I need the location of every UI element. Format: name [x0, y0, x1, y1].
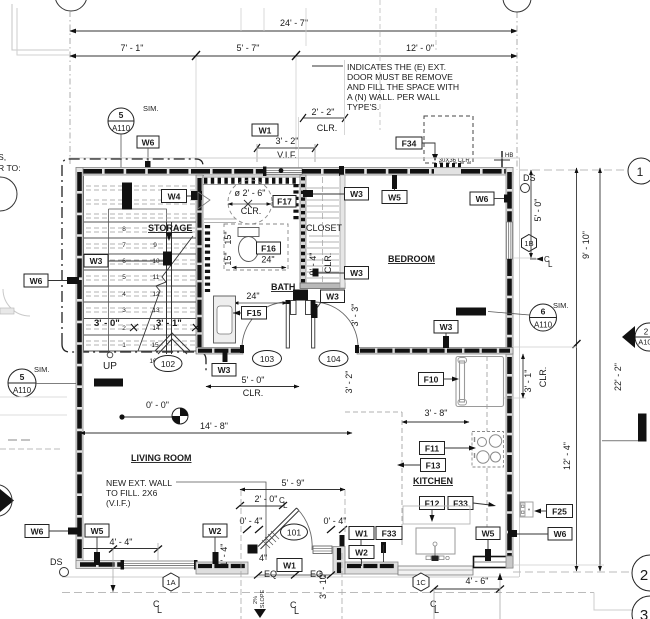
tread numbers right run — [149, 242, 160, 365]
svg-text:5: 5 — [20, 372, 25, 382]
svg-text:2: 2 — [122, 325, 126, 332]
dim line B 9'-10" / 12'-4" — [576, 168, 578, 571]
svg-text:2' - 0": 2' - 0" — [255, 494, 278, 504]
note new ext wall — [106, 478, 266, 560]
room tag 101 — [281, 524, 308, 540]
W3 tag right of closet mid — [313, 267, 369, 280]
svg-text:103: 103 — [260, 354, 274, 364]
tag F11 — [420, 442, 477, 455]
tag F10 — [419, 373, 460, 386]
svg-text:2' - 2": 2' - 2" — [312, 107, 335, 117]
svg-text:F12: F12 — [425, 499, 440, 509]
extension line x241 — [240, 8, 242, 31]
svg-text:W6: W6 — [30, 276, 43, 286]
svg-text:ø 2' - 6": ø 2' - 6" — [235, 188, 266, 198]
storage enclosure outline — [108, 209, 110, 352]
tags W1 F33 right of entry — [349, 527, 402, 563]
bedroom bottom wall — [357, 348, 513, 355]
svg-text:5' - 0": 5' - 0" — [533, 199, 543, 222]
callout 5/A110 SIM — [108, 104, 158, 168]
dim 3'-1" CLR kitchen right — [522, 354, 524, 398]
svg-text:7' - 1": 7' - 1" — [121, 43, 144, 53]
tag W6 bedroom — [470, 192, 510, 205]
chimney black rect — [122, 183, 132, 210]
upper cabinet dashed — [486, 356, 488, 527]
svg-text:W1: W1 — [355, 529, 368, 539]
svg-text:5' - 7": 5' - 7" — [237, 43, 260, 53]
eave line top — [69, 157, 520, 159]
right wall poche lower — [507, 259, 512, 564]
junction tick top wall x340 — [339, 166, 344, 176]
extension dashed x345 — [344, 490, 346, 535]
bath top wall checkered — [203, 177, 300, 185]
svg-text:LIVING ROOM: LIVING ROOM — [131, 453, 192, 463]
extension dashed x342 lower — [341, 553, 343, 619]
bath left wall checkered — [205, 225, 210, 292]
svg-text:22' - 2": 22' - 2" — [613, 363, 623, 391]
svg-text:W2: W2 — [355, 548, 368, 558]
svg-text:W4: W4 — [168, 192, 181, 202]
hose bib HB — [494, 151, 513, 169]
tag W5 bedroom top — [382, 175, 407, 204]
eave line right — [519, 158, 521, 577]
grid dashed to bubble 2 — [513, 571, 631, 573]
svg-text:W1: W1 — [259, 126, 272, 136]
room tag 102 — [154, 356, 182, 372]
bath bottom wall left of door 103 — [196, 348, 243, 355]
svg-text:(V.I.F.): (V.I.F.) — [106, 498, 131, 508]
door 103 leaf — [240, 300, 290, 353]
svg-text:3' - 8": 3' - 8" — [425, 408, 448, 418]
svg-text:S,: S, — [0, 152, 6, 162]
svg-text:BEDROOM: BEDROOM — [388, 254, 435, 264]
left exterior wall band — [76, 168, 83, 569]
svg-text:TO FILL. 2X6: TO FILL. 2X6 — [106, 488, 158, 498]
kitchen window bottom — [474, 557, 508, 568]
tag F13 — [397, 459, 446, 472]
svg-text:W3: W3 — [326, 292, 339, 302]
svg-text:BATH: BATH — [271, 282, 295, 292]
dimension 24'-7" — [70, 30, 517, 32]
clearance arrows — [228, 203, 271, 205]
svg-text:CLOSET: CLOSET — [306, 223, 343, 233]
svg-text:SIM.: SIM. — [143, 104, 158, 113]
left wall poche — [77, 172, 82, 564]
svg-text:A110: A110 — [112, 124, 131, 133]
W3 tag left wall — [84, 252, 172, 268]
svg-text:4' - 4": 4' - 4" — [110, 537, 133, 547]
svg-text:3' - 1": 3' - 1" — [156, 318, 182, 329]
tag F16 — [257, 242, 281, 254]
left diamond marker — [0, 485, 14, 516]
extension line x296 — [295, 57, 297, 150]
BOTTOM — [83, 478, 504, 619]
counter dashed edge vertical — [401, 412, 403, 546]
svg-text:CLR.: CLR. — [317, 123, 338, 133]
centerline symbols bottom — [153, 599, 439, 616]
svg-text:W6: W6 — [476, 194, 489, 204]
centerline symbol bedroom — [530, 255, 553, 269]
tag F25 — [534, 505, 573, 518]
svg-text:5: 5 — [119, 110, 124, 120]
hatch at door101 hinge — [262, 531, 279, 548]
tag F15 — [233, 307, 267, 320]
svg-text:R TO:: R TO: — [0, 163, 21, 173]
svg-text:1' - 4": 1' - 4" — [219, 544, 229, 567]
svg-text:3' - 3": 3' - 3" — [350, 304, 360, 327]
RIGHTDIMS — [62, 158, 650, 619]
extension line x196 — [195, 57, 197, 172]
svg-text:12' - 4": 12' - 4" — [562, 442, 572, 470]
svg-text:DS: DS — [523, 173, 536, 183]
svg-text:2: 2 — [640, 567, 648, 584]
svg-text:W6: W6 — [142, 138, 155, 148]
svg-text:F15: F15 — [247, 308, 262, 318]
svg-text:4": 4" — [259, 553, 267, 563]
svg-text:W2: W2 — [209, 526, 222, 536]
tick at 7'-1 / 5'-7 — [192, 51, 200, 60]
svg-text:4: 4 — [122, 291, 126, 298]
fire separation dash-dot outline — [62, 159, 203, 344]
tag W2 bottom left — [203, 524, 227, 564]
svg-text:5' - 9": 5' - 9" — [282, 478, 305, 488]
tag W6 left upper — [24, 274, 79, 287]
faint existing lines left — [0, 396, 67, 398]
svg-text:W3: W3 — [350, 189, 363, 199]
hidden line x380 — [379, 0, 381, 130]
svg-text:24": 24" — [246, 291, 259, 301]
callout 6/A110 SIM — [488, 301, 568, 331]
top wall poche left — [83, 169, 264, 174]
tread numbers left run — [122, 226, 126, 349]
svg-text:INDICATES THE (E) EXT.: INDICATES THE (E) EXT. — [347, 62, 446, 72]
tag F34 — [396, 137, 438, 161]
grid line x517 — [516, 12, 518, 170]
entry right wall corner — [333, 547, 345, 575]
svg-text:9: 9 — [153, 242, 157, 249]
left exterior door swing — [3, 289, 30, 316]
bath right wall checkered — [293, 184, 298, 222]
closet centerline dashed — [322, 177, 324, 283]
benchmark 0'-0" — [119, 400, 188, 424]
svg-text:5: 5 — [122, 274, 126, 281]
tread dashed midlines — [86, 186, 195, 345]
svg-text:SIM.: SIM. — [34, 365, 49, 374]
svg-text:L: L — [434, 605, 439, 615]
stair treads — [84, 222, 196, 351]
top wall poche right — [461, 169, 510, 174]
W3 tag below bath wall — [212, 349, 236, 376]
bottom wall kitchen-left segment — [345, 562, 398, 574]
toilet clearance dashed — [224, 224, 288, 270]
svg-text:1C: 1C — [416, 578, 426, 587]
bottom wall left segment — [76, 561, 124, 569]
svg-text:F17: F17 — [277, 197, 292, 207]
svg-text:W5: W5 — [482, 529, 495, 539]
svg-text:7: 7 — [122, 242, 126, 249]
door 101 leaf — [258, 508, 312, 550]
GRID-AND-DIMS — [12, 0, 536, 193]
stair room inner boundary — [83, 176, 85, 352]
KITCHEN — [345, 356, 573, 561]
svg-text:24' - 7": 24' - 7" — [280, 18, 308, 28]
svg-text:104: 104 — [326, 354, 340, 364]
svg-text:F25: F25 — [552, 507, 567, 517]
bottom wall entry-left segment — [196, 562, 248, 574]
island sink cabinet — [403, 506, 470, 561]
svg-text:15": 15" — [223, 231, 233, 244]
tag F17 — [273, 196, 296, 208]
dim line C 22'-2" — [599, 168, 601, 571]
up direction break line — [138, 236, 193, 351]
svg-text:5' - 0": 5' - 0" — [242, 375, 265, 385]
toilet F16 — [238, 228, 259, 262]
dim ticks — [130, 324, 138, 331]
BATH — [198, 177, 369, 398]
svg-text:CLR.: CLR. — [538, 367, 548, 388]
svg-text:3' - 2": 3' - 2" — [344, 371, 354, 394]
extension line x430 vertical — [433, 589, 435, 619]
section marker 2/A106 — [622, 323, 650, 351]
shower curb — [204, 218, 236, 220]
wall stub between doors 103-104 — [293, 290, 308, 301]
tag W2 right of entry — [349, 546, 374, 567]
svg-text:A110: A110 — [534, 321, 553, 330]
svg-text:14' - 8": 14' - 8" — [200, 421, 228, 431]
svg-text:SLOPE: SLOPE — [260, 589, 266, 608]
winder chevron — [155, 333, 190, 351]
svg-text:1: 1 — [122, 342, 126, 349]
window W1 in top wall — [264, 168, 302, 174]
svg-text:3' - 2": 3' - 2" — [276, 136, 299, 146]
dimension line row2 — [70, 55, 517, 57]
hex tag 1C — [413, 573, 429, 591]
svg-text:L: L — [157, 605, 162, 615]
svg-text:9' - 10": 9' - 10" — [581, 231, 591, 259]
shower clearance circle — [228, 180, 272, 224]
svg-text:W1: W1 — [283, 561, 296, 571]
tag W1 top — [252, 124, 278, 136]
svg-text:0' - 4": 0' - 4" — [324, 516, 347, 526]
counter dashed edge horizontal — [345, 411, 402, 413]
svg-text:AND FILL THE SPACE WITH: AND FILL THE SPACE WITH — [347, 82, 459, 92]
svg-text:KITCHEN: KITCHEN — [413, 476, 453, 486]
counter sink F10 — [456, 357, 504, 407]
svg-text:1B: 1B — [524, 239, 533, 248]
svg-text:W6: W6 — [554, 529, 567, 539]
svg-text:CLR.: CLR. — [243, 388, 264, 398]
door 104 leaf — [311, 300, 359, 353]
svg-text:4' - 6": 4' - 6" — [466, 576, 489, 586]
door sill hatch top — [434, 163, 461, 169]
panel F25 fixture — [520, 502, 533, 517]
range F11 — [472, 432, 504, 468]
black bar below stairs — [94, 379, 123, 387]
svg-text:12' - 0": 12' - 0" — [406, 43, 434, 53]
grid bubble 2 — [632, 555, 650, 591]
tag W5 kitchen — [476, 527, 500, 561]
tag W6 left lower — [25, 525, 78, 538]
svg-text:3' - 0": 3' - 0" — [94, 318, 120, 329]
entry threshold — [313, 546, 332, 554]
svg-text:2%: 2% — [253, 596, 259, 604]
svg-text:F11: F11 — [425, 444, 439, 454]
svg-text:1: 1 — [637, 165, 644, 179]
note text — [312, 62, 459, 112]
closet left wall — [300, 175, 306, 288]
showerhead — [198, 192, 210, 209]
extension line x306 — [305, 8, 307, 46]
svg-text:UP: UP — [103, 361, 117, 372]
slope arrow — [253, 589, 266, 618]
svg-text:NEW EXT. WALL: NEW EXT. WALL — [106, 478, 172, 488]
svg-text:L: L — [294, 606, 299, 616]
svg-text:30X36 CLR.: 30X36 CLR. — [439, 158, 472, 164]
svg-text:W3: W3 — [218, 365, 231, 375]
closet shelf lines — [307, 188, 339, 278]
W3 tag below closet — [311, 290, 345, 318]
svg-text:L: L — [548, 260, 553, 269]
svg-text:3' - 10": 3' - 10" — [318, 571, 328, 599]
W3 tag right of closet top — [303, 188, 369, 201]
svg-text:2: 2 — [644, 328, 649, 337]
hex tag 1A — [163, 573, 179, 591]
window W6 right wall — [507, 222, 513, 259]
stair-bath interior wall — [196, 175, 203, 352]
right wall poche upper — [507, 172, 512, 222]
svg-text:6: 6 — [541, 307, 546, 317]
svg-text:8: 8 — [122, 226, 126, 233]
tag W6 top — [137, 136, 159, 174]
svg-text:15": 15" — [223, 252, 233, 265]
step dashed line to bubble 3 — [62, 592, 594, 594]
svg-text:3' - 1": 3' - 1" — [523, 370, 533, 393]
svg-text:F33: F33 — [382, 529, 397, 539]
stringer double line — [166, 222, 168, 354]
svg-text:1A: 1A — [166, 578, 175, 587]
eave outline corner top-left — [12, 4, 69, 50]
extension dashed x241 — [240, 490, 242, 619]
svg-text:W3: W3 — [90, 256, 103, 266]
bedroom wall patch black — [456, 308, 486, 316]
WALLS — [0, 158, 520, 577]
right exterior wall band — [506, 168, 513, 569]
tag W3 bedroom — [434, 321, 458, 349]
tag W6 right — [508, 528, 572, 541]
tag W1 entry — [277, 559, 302, 572]
grid line from bubble — [69, 11, 71, 164]
svg-text:STORAGE: STORAGE — [148, 223, 192, 233]
extension line x264 — [263, 8, 265, 31]
svg-text:0' - 4": 0' - 4" — [240, 516, 263, 526]
grid bubble left partial — [0, 177, 17, 211]
svg-text:W6: W6 — [31, 527, 44, 537]
closet bottom wall — [300, 283, 345, 289]
black bar right edge — [638, 414, 647, 442]
top wall poche mid — [302, 169, 434, 174]
window bottom-left wall — [122, 561, 196, 568]
eave outline corner inner — [17, 8, 69, 55]
callout 5/A110 SIM left — [8, 365, 76, 397]
entry right jamb post — [340, 535, 345, 547]
svg-text:101: 101 — [287, 528, 301, 538]
top exterior wall band — [76, 168, 513, 176]
entry door jamb stub — [248, 545, 258, 554]
svg-text:A106: A106 — [638, 338, 650, 347]
room tag 104 — [319, 351, 348, 367]
closet right boundary — [340, 175, 345, 288]
svg-text:F13: F13 — [426, 461, 441, 471]
svg-text:W3: W3 — [440, 322, 453, 332]
svg-text:A110: A110 — [13, 386, 32, 395]
svg-text:CLR.: CLR. — [323, 253, 333, 274]
grid bubble top-left — [55, 0, 87, 11]
svg-text:A (N) WALL. PER WALL: A (N) WALL. PER WALL — [347, 92, 440, 102]
extension lines right side — [513, 346, 577, 348]
svg-text:W3: W3 — [350, 268, 363, 278]
hex tag 1B — [522, 235, 537, 252]
svg-text:EQ: EQ — [264, 569, 277, 579]
grid bubble 1 — [628, 158, 650, 184]
bottom-right wall corner — [506, 556, 513, 568]
room tag 103 — [253, 351, 282, 367]
svg-text:102: 102 — [161, 359, 175, 369]
fire separation dash-dot bottom — [62, 344, 206, 373]
svg-text:SIM.: SIM. — [553, 301, 568, 310]
svg-text:TYPE'S.: TYPE'S. — [347, 102, 379, 112]
eave line bottom — [62, 576, 519, 578]
tag F12 — [420, 497, 445, 523]
svg-text:DOOR MUST BE REMOVE: DOOR MUST BE REMOVE — [347, 72, 453, 82]
STAIR — [84, 176, 203, 387]
left dash lines — [8, 439, 30, 441]
vanity — [214, 296, 236, 343]
svg-text:W5: W5 — [388, 193, 401, 203]
W4 tag — [162, 190, 203, 203]
rear threshold — [398, 566, 473, 575]
svg-text:W5: W5 — [91, 526, 104, 536]
tag F33 kitchen — [448, 497, 496, 510]
svg-text:F10: F10 — [424, 375, 439, 385]
grid line to bubble 1 — [520, 169, 628, 171]
svg-text:3: 3 — [122, 307, 126, 314]
svg-text:0' - 0": 0' - 0" — [146, 400, 169, 410]
grid bubble 3 — [632, 596, 650, 619]
svg-text:F34: F34 — [402, 139, 417, 149]
svg-text:24": 24" — [261, 255, 274, 265]
svg-text:F16: F16 — [261, 244, 276, 254]
hidden line x436 — [435, 8, 437, 50]
F34 dashed extent — [424, 116, 473, 163]
svg-text:DS: DS — [50, 557, 63, 567]
svg-text:F33: F33 — [453, 499, 468, 509]
tag W5 bottom left — [85, 524, 109, 565]
svg-text:3: 3 — [640, 607, 648, 619]
svg-text:11: 11 — [153, 274, 160, 281]
grid bubble top-right of 24'-7 line — [503, 0, 531, 12]
dim line A 5'-0" — [530, 170, 532, 258]
